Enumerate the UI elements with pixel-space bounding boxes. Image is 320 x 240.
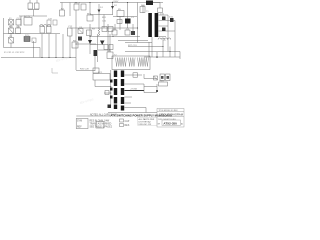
title text: [158, 110, 184, 126]
wire: [3, 18, 5, 48]
wire: [62, 34, 64, 58]
capacitor C14: [104, 45, 108, 50]
wire: [124, 96, 132, 98]
regulator U3: [159, 82, 168, 86]
wire: [76, 43, 96, 45]
svg-text:+310V: +310V: [112, 1, 119, 3]
svg-text:AC IN: AC IN: [24, 15, 30, 18]
wire: [114, 24, 116, 30]
diode D16: [110, 88, 113, 91]
watermark: [55, 55, 94, 105]
capacitor C6: [81, 4, 86, 10]
wire: [94, 54, 96, 71]
resistor R8: [72, 42, 78, 48]
wire: [90, 44, 104, 46]
wire output rail: [144, 56, 180, 58]
svg-text:R27 C19: R27 C19: [128, 45, 137, 47]
rectifier BD1: [87, 15, 93, 21]
wire: [169, 47, 171, 58]
wire feedback: [128, 46, 163, 48]
legend text: [77, 114, 130, 129]
svg-text:C5 C6: C5 C6: [74, 3, 81, 5]
diode D2: [111, 3, 114, 15]
drive block U1: [112, 56, 150, 70]
wire: [151, 37, 153, 57]
wire: [107, 24, 109, 52]
wire: [124, 102, 131, 104]
fuse F1: [9, 20, 14, 26]
inductor L3: [146, 1, 153, 6]
wire tap: [159, 25, 169, 27]
node junction dots: [41, 2, 170, 94]
wire: [137, 3, 139, 43]
svg-text:CAP: CAP: [125, 120, 130, 123]
svg-text:NTC: NTC: [25, 35, 30, 37]
transistor Q2: [87, 30, 92, 36]
svg-text:F1 CX1 L1 CX2 NTC: F1 CX1 L1 CX2 NTC: [4, 52, 25, 54]
node J2: [156, 90, 158, 92]
wire: [4, 47, 41, 49]
wire: [124, 74, 142, 76]
wire tap: [159, 36, 167, 38]
wire ground bus: [1, 57, 76, 59]
snubber R20: [140, 7, 145, 13]
diode D15: [110, 80, 113, 83]
wire: [90, 36, 114, 38]
svg-text:RES IN OHM 1/4W: RES IN OHM 1/4W: [90, 121, 110, 123]
transistor Q1: [78, 29, 83, 34]
wire: [153, 3, 160, 9]
svg-text:TITLE MODEL NO REV: TITLE MODEL NO REV: [159, 110, 179, 112]
diode D18: [108, 105, 112, 109]
wire tap: [159, 30, 176, 32]
wire: [167, 15, 169, 52]
svg-text:RES: RES: [125, 125, 130, 127]
optocoupler U2: [93, 74, 110, 81]
resistor R22: [133, 73, 138, 77]
thermistor NTC1: [24, 37, 30, 42]
wire: [89, 3, 91, 15]
wire tap: [159, 20, 176, 22]
transistor Q3: [112, 30, 117, 35]
wire: [144, 74, 157, 79]
schematic small labels: [4, 1, 174, 91]
wire: [61, 3, 63, 11]
transformer T1 primary winding: [148, 13, 152, 37]
common-mode choke L2: [40, 25, 52, 33]
wire: [41, 34, 43, 58]
wire: [174, 21, 176, 58]
capacitor C16: [94, 50, 98, 56]
wire tap: [159, 14, 169, 16]
svg-text:DWN CHK APP SCALE: DWN CHK APP SCALE: [158, 118, 177, 121]
svg-text:+5VSB: +5VSB: [130, 89, 137, 91]
wire: [112, 36, 140, 38]
wire feedback: [125, 52, 180, 60]
diode D12: [162, 28, 166, 32]
wire: [124, 108, 146, 113]
wire: [69, 36, 71, 58]
resistor R12: [107, 52, 113, 59]
wire: [119, 17, 121, 27]
svg-text:CIRCUIT DIAGRAM: CIRCUIT DIAGRAM: [159, 113, 184, 117]
wire: [143, 84, 145, 93]
wire bottom rule: [108, 112, 157, 114]
diode D11: [170, 18, 174, 22]
title block: [157, 109, 184, 128]
legend table: [76, 116, 123, 129]
wire: [69, 3, 71, 17]
svg-text:A2: A2: [181, 122, 183, 125]
svg-text:REF: REF: [77, 127, 82, 129]
transformer T2 secondary winding: [121, 71, 124, 111]
wire +DC bus: [60, 2, 163, 4]
capacitor CY2: [47, 20, 51, 25]
transformer T2 primary winding: [114, 71, 117, 110]
svg-text:TRANS AS MARKED: TRANS AS MARKED: [90, 123, 112, 126]
diode D17: [110, 96, 113, 99]
svg-text:SYM: SYM: [77, 121, 82, 123]
capacitor C1: [125, 3, 131, 29]
varistor RV1: [9, 28, 14, 34]
wire: [76, 70, 95, 72]
wire: [11, 25, 18, 48]
wire: [97, 34, 99, 62]
diode D10: [162, 17, 166, 21]
wire: [109, 34, 111, 52]
wire: [144, 92, 157, 94]
wire: [113, 16, 137, 18]
wire: [48, 34, 50, 58]
capacitor C21: [156, 52, 158, 57]
capacitor C22: [154, 76, 158, 80]
capacitor CX1: [16, 20, 21, 26]
transformer T1 secondary winding: [155, 13, 159, 37]
wire: [103, 15, 105, 29]
wire: [4, 33, 61, 35]
wire: [33, 41, 35, 58]
wire: [156, 84, 158, 92]
wire stub: [52, 68, 58, 73]
wire: [119, 26, 121, 30]
wire: [124, 83, 144, 85]
wire: [148, 42, 150, 57]
svg-text:DWG NO 113: DWG NO 113: [139, 124, 153, 126]
diode D1: [98, 4, 101, 28]
resistor R3: [32, 38, 36, 43]
capacitor C13: [108, 27, 113, 32]
wire: [95, 80, 111, 87]
capacitor C8: [117, 20, 122, 24]
capacitor C5: [74, 4, 79, 10]
wire: [142, 5, 144, 13]
wire: [144, 86, 157, 88]
line filter L1: [24, 18, 32, 26]
wire: [55, 34, 57, 58]
wire feedback: [125, 42, 152, 44]
svg-text:SEE TABLE-1 PAGE2: SEE TABLE-1 PAGE2: [90, 126, 113, 129]
wire: [98, 49, 110, 51]
wire: [19, 15, 47, 17]
capacitor C12: [102, 27, 107, 32]
capacitor CX2: [16, 28, 21, 34]
wire: [162, 38, 164, 57]
wire: [104, 92, 111, 94]
capacitor CX3: [9, 38, 14, 44]
node J1: [156, 56, 158, 58]
resistor R2: [60, 10, 65, 16]
svg-text:R31 C28: R31 C28: [80, 69, 89, 71]
AC plug P1: [28, 0, 39, 16]
capacitor C30: [105, 91, 109, 95]
capacitor CY1: [68, 28, 73, 36]
rectifier BD2: [160, 74, 170, 81]
diode D4: [88, 40, 92, 44]
wire: [75, 10, 77, 70]
wire +5VSB: [124, 90, 144, 92]
wire: [70, 27, 138, 29]
wire: [90, 14, 113, 16]
wire feedback: [118, 40, 148, 42]
svg-text:7805: 7805: [159, 81, 165, 83]
output choke L4: [158, 38, 171, 40]
diode D6: [131, 31, 135, 35]
diode D3: [78, 37, 82, 41]
capacitor C20: [158, 8, 163, 13]
wire: [89, 24, 91, 54]
diode D5: [100, 41, 105, 46]
capacitor C15: [109, 45, 113, 50]
resistor R30: [93, 68, 99, 73]
resistor R10: [98, 28, 100, 36]
wire: [132, 24, 134, 31]
capacitor CY3: [53, 20, 57, 25]
notes paragraph: [138, 117, 158, 126]
wire: [20, 16, 22, 26]
wire: [110, 70, 112, 108]
transistor Q4: [125, 30, 130, 35]
wire: [39, 48, 41, 58]
svg-text:ATX2-350: ATX2-350: [163, 121, 177, 125]
resistor R5: [117, 11, 124, 17]
